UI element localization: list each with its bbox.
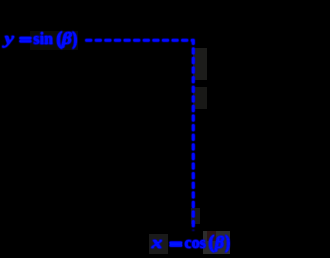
svg-text:x: x <box>150 233 163 252</box>
svg-text:): ) <box>225 233 230 254</box>
svg-text:y: y <box>2 29 15 48</box>
svg-text:(: ( <box>208 233 215 254</box>
svg-text:β: β <box>214 233 225 252</box>
svg-text:cos: cos <box>185 233 207 252</box>
svg-text:): ) <box>72 29 77 50</box>
svg-text:β: β <box>61 29 72 48</box>
svg-text:sin: sin <box>33 29 53 48</box>
